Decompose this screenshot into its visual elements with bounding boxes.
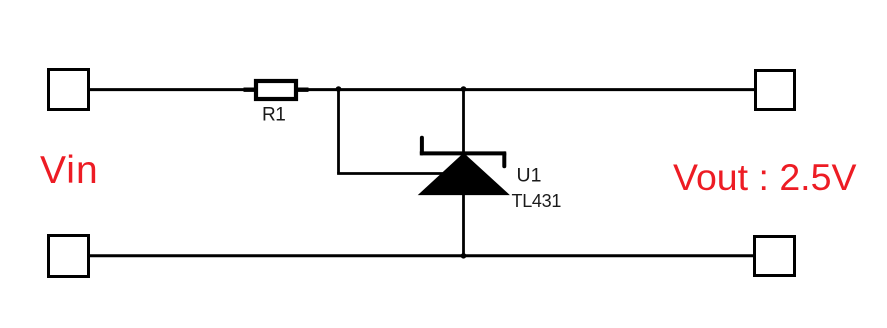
net label Vin [40, 151, 99, 190]
shunt regulator U1 cathode bar right down-stub [502, 153, 506, 166]
svg-text:R1: R1 [262, 105, 285, 126]
wire: anode vertical from U1 down to bottom rail [462, 194, 465, 256]
junction node: top rail to U1 reference feedback [336, 86, 342, 92]
svg-text:TL431: TL431 [512, 191, 562, 211]
shunt regulator U1 cathode bar [420, 151, 506, 155]
wire: feedback vertical drop from top rail [337, 90, 340, 174]
junction node: top rail to U1 cathode [461, 86, 467, 92]
resistor R1 right pin stub [298, 87, 309, 91]
net label Vout : 2.5V [673, 159, 856, 197]
junction node: anode to bottom rail [461, 253, 467, 259]
wire: top rail, resistor R1 to top-right square [298, 88, 756, 91]
resistor R1 body [256, 81, 296, 99]
wire: feedback horizontal to U1 reference pin [337, 172, 445, 175]
resistor R1 left pin stub [244, 87, 255, 91]
shunt regulator U1 triangle (anode) [419, 154, 509, 195]
terminal pad bottom-left (Vin -) [49, 236, 89, 277]
terminal pad bottom-right (Vout -) [755, 237, 795, 276]
shunt regulator U1 cathode bar left up-stub [420, 138, 424, 154]
wire: cathode vertical from top rail down to U1 [462, 90, 465, 155]
wire: top rail, left square to resistor R1 [89, 88, 255, 91]
terminal pad top-left (Vin +) [49, 70, 89, 110]
terminal pad top-right (Vout +) [756, 71, 795, 110]
wire: bottom rail [89, 254, 755, 257]
svg-text:U1: U1 [517, 165, 542, 187]
